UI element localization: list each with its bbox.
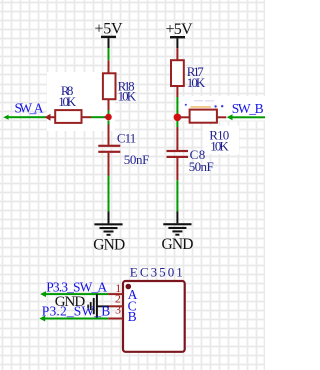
svg-text:P3.3_SW_A: P3.3_SW_A	[46, 279, 107, 294]
svg-text:B: B	[128, 309, 137, 324]
svg-text:50nF: 50nF	[124, 152, 150, 167]
svg-text:10K: 10K	[210, 138, 229, 153]
svg-text:C11: C11	[117, 130, 136, 145]
svg-text:SW_B: SW_B	[232, 101, 264, 116]
svg-text:10K: 10K	[118, 89, 137, 104]
svg-text:GND: GND	[93, 236, 125, 253]
svg-text:50nF: 50nF	[189, 159, 214, 174]
svg-text:10K: 10K	[58, 94, 76, 109]
svg-text:+5V: +5V	[166, 21, 193, 38]
svg-text:GND: GND	[162, 236, 194, 253]
svg-text:3: 3	[115, 303, 121, 317]
svg-text:P3.2_SW_B: P3.2_SW_B	[42, 303, 111, 318]
svg-text:SW_A: SW_A	[15, 100, 44, 115]
svg-text:+5V: +5V	[95, 21, 123, 38]
svg-text:10K: 10K	[187, 75, 206, 90]
